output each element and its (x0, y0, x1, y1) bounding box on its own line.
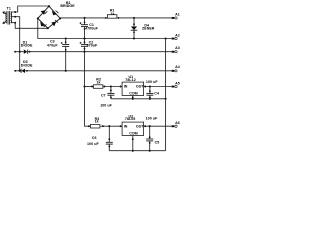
svg-text:78L05: 78L05 (125, 117, 135, 121)
wire: ground sub-rail under U1 (111, 98, 167, 100)
capacitor C2 (80, 39, 88, 52)
wire: A4 rail (25, 70, 172, 72)
wire: U1 out to A5 (144, 85, 172, 87)
wire: R2 row (85, 85, 123, 87)
svg-text:100 uF: 100 uF (146, 80, 158, 84)
svg-text:A2: A2 (175, 34, 180, 38)
svg-text:A5: A5 (175, 82, 180, 86)
wire: + rail from bridge E to A1 (60, 17, 172, 19)
wire: feed bus x84.5 down (83, 52, 90, 127)
bridge diode SW (40, 22, 46, 28)
svg-text:COM: COM (129, 92, 138, 96)
svg-text:A4: A4 (175, 65, 180, 69)
svg-text:78L12: 78L12 (125, 78, 135, 82)
wire: secondary tap2 down left bus (11, 16, 19, 71)
svg-text:DIODE: DIODE (21, 43, 33, 47)
resistor R1 (105, 15, 119, 19)
svg-text:C6: C6 (92, 136, 97, 140)
diode D3 (14, 69, 28, 73)
bridge B1 diamond (37, 5, 62, 29)
wire: right bus x165.6 (165, 39, 167, 151)
bridge diode NW (41, 10, 48, 15)
resistor R2 (93, 85, 103, 89)
svg-text:A3: A3 (175, 46, 180, 50)
svg-text:100 uF: 100 uF (87, 142, 99, 146)
terminal A4 (172, 70, 178, 72)
svg-text:100 uF: 100 uF (100, 104, 112, 108)
capacitor C7 (107, 87, 114, 99)
svg-text:DIODE: DIODE (21, 63, 33, 67)
bridge diode NE (52, 11, 59, 16)
terminal A3 (172, 51, 178, 53)
regulator U1 (122, 82, 144, 95)
wire: secondary tap3 to bridge bottom (11, 22, 48, 29)
svg-text:ZENER: ZENER (142, 26, 155, 30)
svg-text:470uF: 470uF (87, 44, 98, 48)
wire: U1 COM stub (132, 96, 134, 99)
transformer T1 (2, 11, 11, 25)
svg-text:C4: C4 (154, 92, 159, 96)
svg-text:1k: 1k (110, 12, 114, 16)
svg-text:4700uF: 4700uF (85, 26, 98, 30)
svg-text:COM: COM (129, 132, 138, 136)
svg-text:IN: IN (124, 85, 128, 89)
bridge diode SE (51, 20, 58, 26)
terminal A2 (172, 37, 178, 39)
regulator U2 (122, 122, 144, 135)
wire: R3 row (88, 125, 122, 127)
svg-text:T1: T1 (7, 7, 11, 11)
svg-text:A6: A6 (175, 121, 180, 125)
terminal A6 (172, 125, 178, 127)
capacitor C1 (80, 18, 88, 39)
terminal A1 (172, 17, 178, 19)
capacitor C3 (61, 39, 69, 71)
capacitor C4 (146, 87, 153, 99)
svg-text:1k: 1k (95, 120, 99, 124)
svg-text:BRIDGE: BRIDGE (60, 4, 75, 8)
wire: U2 out to A6 (144, 125, 172, 127)
capacitor C6 (106, 126, 113, 151)
zener diode D4 (131, 18, 138, 39)
wire: bottom ground rail (109, 150, 165, 152)
wire: U2 COM stub (132, 136, 134, 152)
svg-text:100 uF: 100 uF (146, 117, 158, 121)
terminal A5 (172, 85, 178, 87)
resistor R3 (90, 125, 100, 129)
svg-text:470uF: 470uF (47, 44, 58, 48)
wire: secondary tap1 to bridge top (11, 6, 49, 13)
svg-text:1k: 1k (97, 81, 101, 85)
svg-text:OUT: OUT (136, 125, 144, 129)
svg-text:IN: IN (124, 125, 128, 129)
svg-text:C5: C5 (155, 140, 160, 144)
svg-text:A1: A1 (175, 13, 180, 17)
svg-text:OUT: OUT (136, 85, 144, 89)
diode D1 (14, 50, 30, 54)
wire: ground rail from bridge W to A2 (38, 18, 172, 39)
wire: A3 rail (28, 51, 172, 53)
capacitor C5 (146, 126, 153, 151)
svg-text:C7: C7 (101, 93, 106, 97)
